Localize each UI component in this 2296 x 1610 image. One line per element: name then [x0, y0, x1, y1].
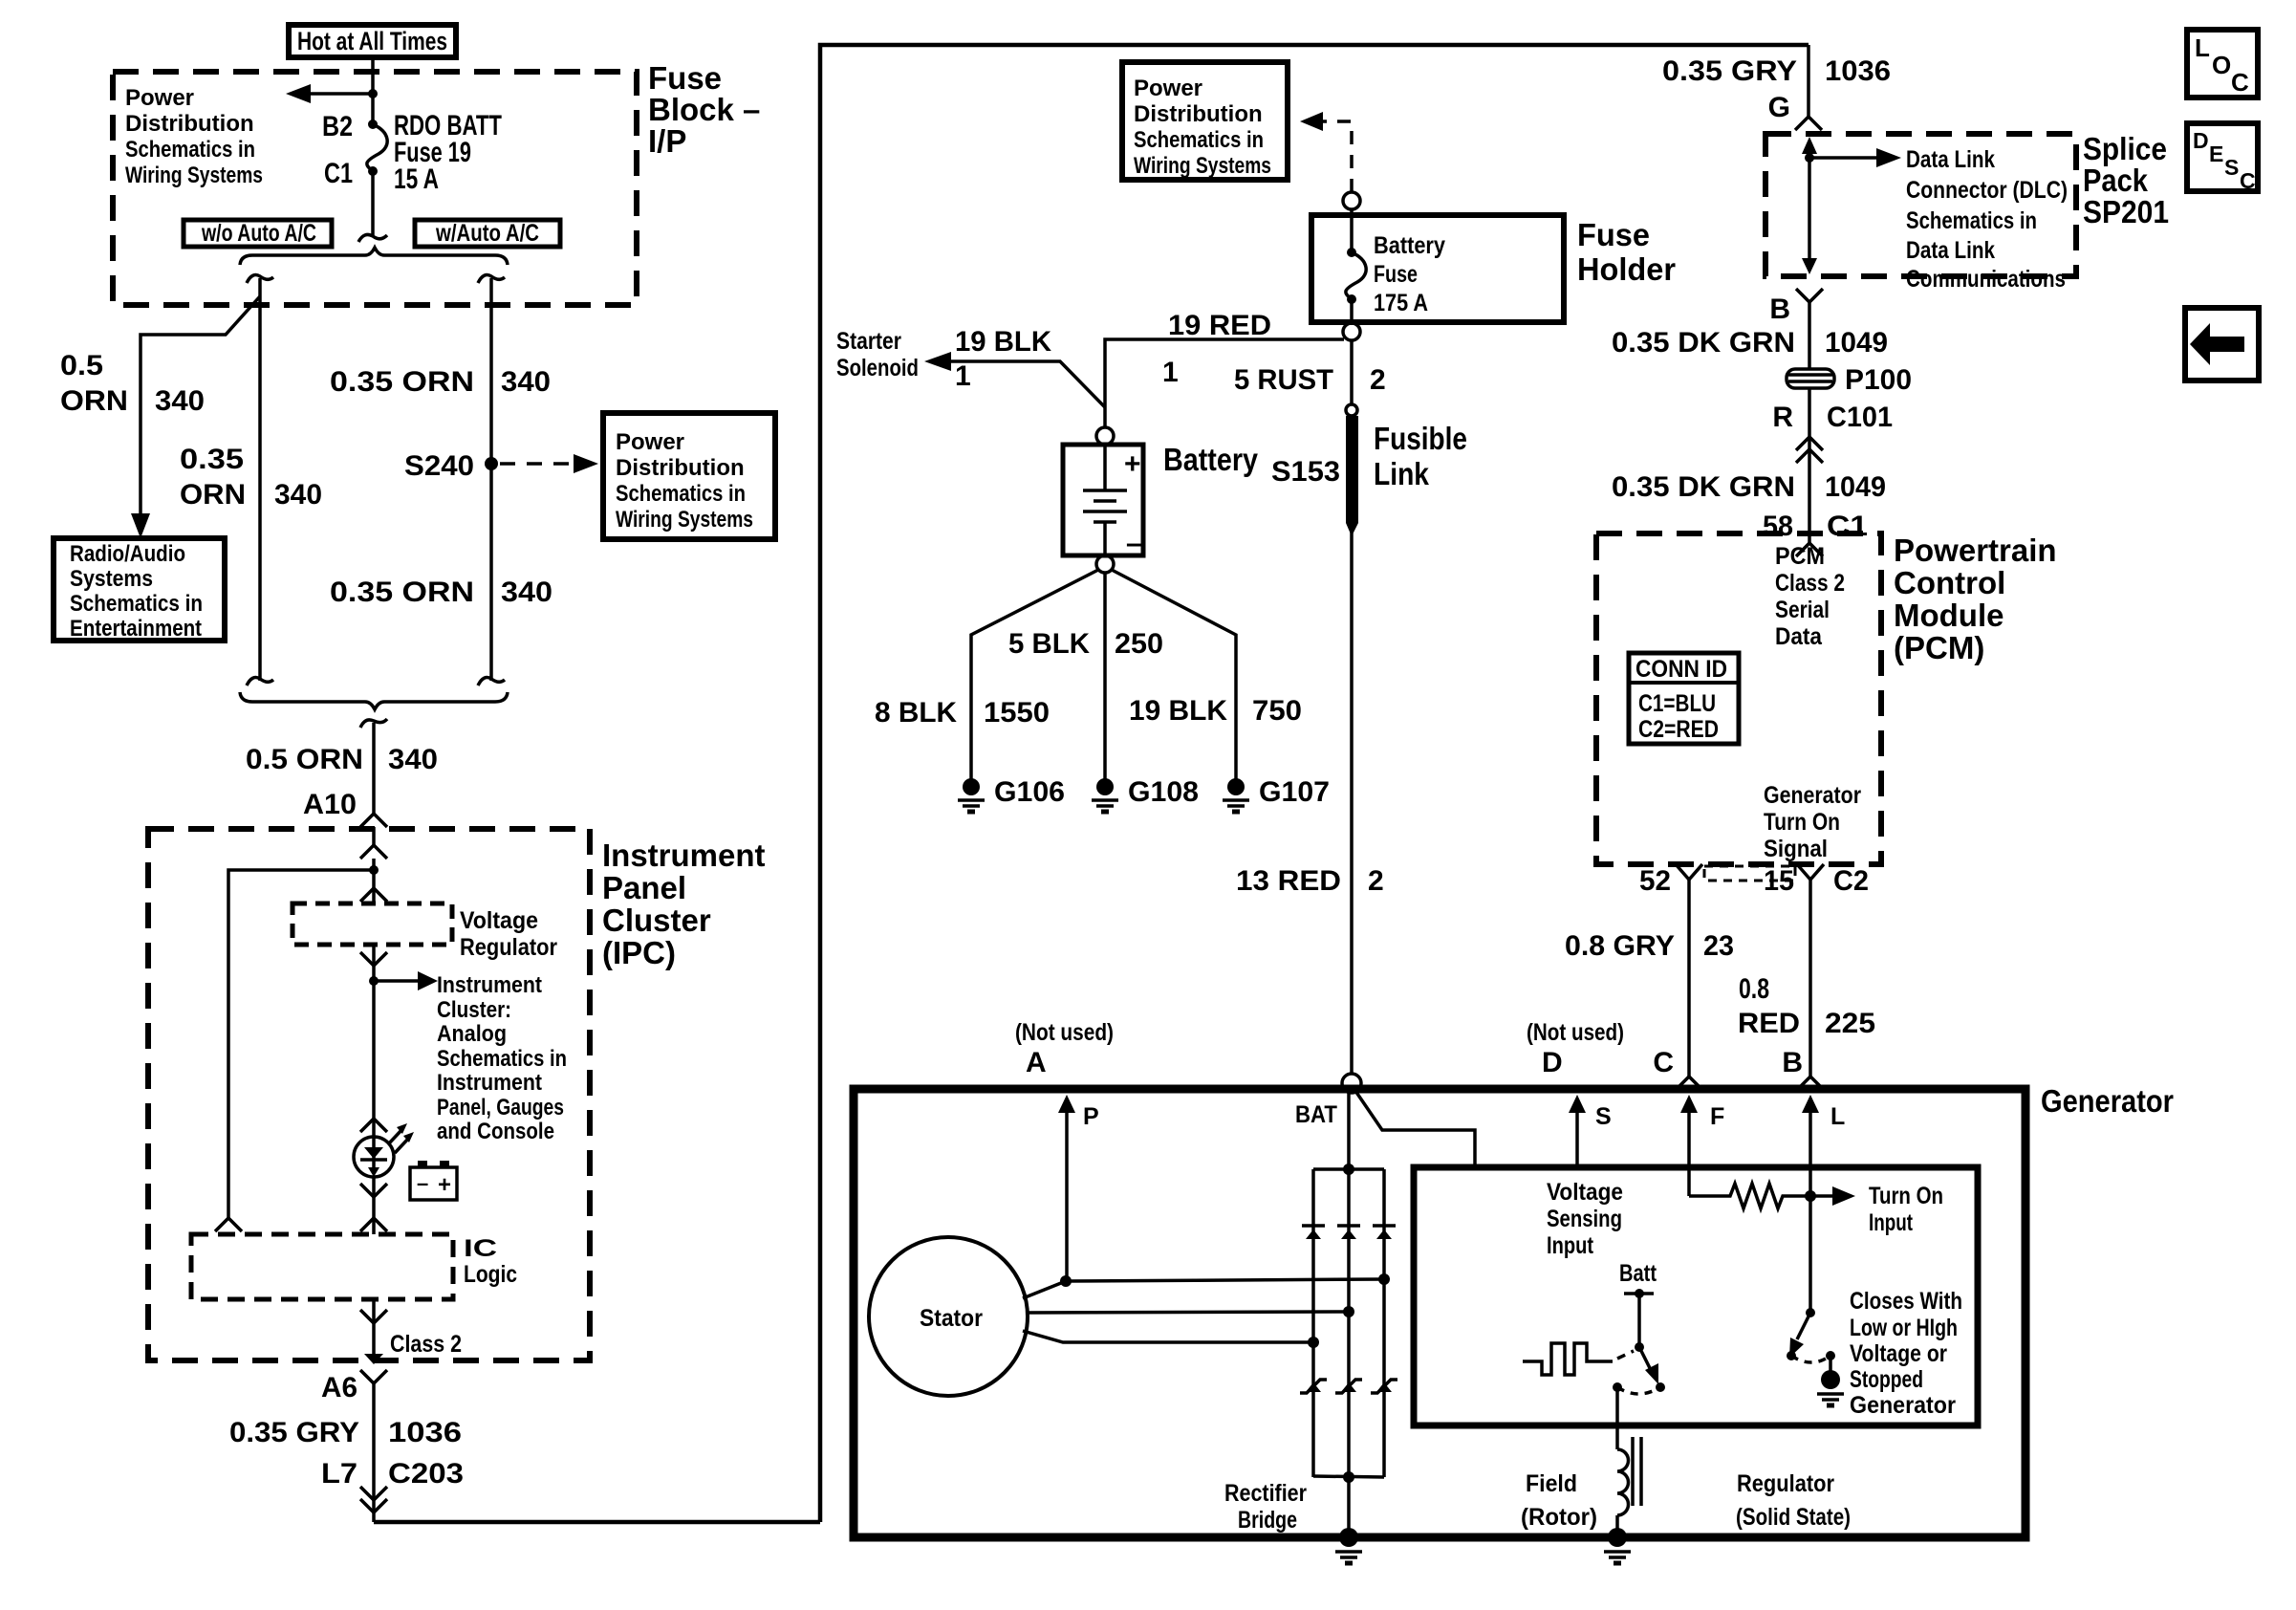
splice wire down arrow	[1802, 158, 1817, 274]
wire SP201 to P100	[1808, 302, 1811, 369]
svg-text:23: 23	[1703, 930, 1734, 962]
svg-text:Fusible: Fusible	[1374, 421, 1467, 456]
svg-text:Module: Module	[1894, 598, 2004, 633]
label Splice Pack SP201	[2083, 131, 2169, 229]
LED indicator lamp	[354, 1123, 414, 1177]
label 0.5 ORN 340	[246, 744, 438, 775]
label 0.35 DK GRN 1049 lower	[1612, 471, 1886, 503]
ground G108	[1096, 778, 1114, 795]
svg-text:Power: Power	[125, 85, 194, 111]
svg-text:B: B	[1782, 1047, 1803, 1078]
svg-text:Distribution: Distribution	[125, 111, 254, 137]
wire fuse holder to fusible link	[1350, 340, 1354, 405]
note Instrument Cluster Analog Schematics	[437, 972, 567, 1144]
wire 13 RED down to generator BAT	[1350, 532, 1354, 1074]
svg-text:F: F	[1710, 1103, 1724, 1130]
Regulator box	[1414, 1167, 1978, 1425]
svg-text:I/P: I/P	[648, 123, 686, 159]
svg-text:Batt: Batt	[1619, 1260, 1657, 1287]
splice wire up arrow	[1802, 137, 1817, 163]
svg-text:C203: C203	[388, 1458, 464, 1490]
svg-text:0.8 GRY: 0.8 GRY	[1565, 930, 1675, 962]
label 0.35 GRY 1036	[229, 1417, 462, 1448]
svg-text:S: S	[2224, 155, 2239, 180]
fuse RDO BATT 15A	[367, 120, 387, 176]
label 0.35 GRY 1036 top right	[1662, 55, 1891, 87]
svg-text:Communications: Communications	[1906, 266, 2066, 293]
label Rectifier Bridge	[1224, 1480, 1307, 1534]
svg-text:A: A	[1026, 1047, 1047, 1078]
svg-text:IC: IC	[464, 1235, 497, 1262]
svg-text:Pack: Pack	[2083, 163, 2149, 198]
svg-text:Schematics in: Schematics in	[1134, 127, 1264, 153]
reference box Power Distribution middle	[1122, 62, 1288, 180]
wire coil to ground	[1615, 1515, 1619, 1534]
arrow to power distribution left	[286, 84, 378, 103]
stator phase wire 2	[1027, 1312, 1349, 1313]
fuse holder terminal circle top	[1343, 192, 1360, 209]
svg-text:Powertrain: Powertrain	[1894, 533, 2057, 568]
svg-text:0.8: 0.8	[1739, 973, 1769, 1005]
node with arrow to instrument cluster note	[369, 976, 379, 986]
label 0.8 RED 225	[1738, 973, 1875, 1039]
wire to left branch inside IPC	[228, 870, 374, 1218]
node junction inside IPC	[369, 865, 379, 875]
svg-text:ORN: ORN	[60, 385, 128, 417]
hook below fuse wire	[358, 234, 387, 242]
wire fuse to split	[371, 171, 375, 235]
svg-text:0.35: 0.35	[180, 444, 244, 475]
connector A10 chevrons	[360, 814, 387, 827]
svg-text:225: 225	[1825, 1008, 1875, 1039]
svg-text:B2: B2	[322, 111, 353, 142]
label Instrument Panel Cluster IPC	[602, 838, 766, 970]
svg-text:Rectifier: Rectifier	[1224, 1480, 1307, 1507]
svg-text:C2=RED: C2=RED	[1638, 716, 1719, 743]
label 0.35 ORN 340 right branch lower	[330, 577, 552, 608]
svg-text:Input: Input	[1547, 1232, 1594, 1259]
svg-text:A6: A6	[321, 1372, 357, 1403]
svg-text:340: 340	[501, 366, 551, 398]
svg-text:0.35 GRY: 0.35 GRY	[229, 1417, 359, 1448]
svg-text:19 BLK: 19 BLK	[955, 326, 1051, 358]
Generator box	[854, 1089, 2025, 1537]
arrow to DLC note	[1809, 148, 1901, 167]
svg-text:Cluster:: Cluster:	[437, 997, 511, 1023]
svg-text:SP201: SP201	[2083, 194, 2169, 229]
left rail wire of charging section	[820, 45, 1809, 1522]
svg-text:Voltage: Voltage	[1547, 1179, 1623, 1206]
svg-text:Data: Data	[1775, 623, 1823, 650]
svg-text:340: 340	[388, 744, 438, 775]
svg-text:0.35 ORN: 0.35 ORN	[330, 366, 474, 398]
wire IC logic to IPC edge Class 2	[372, 1299, 376, 1354]
label 8 BLK 1550	[875, 697, 1050, 729]
svg-text:Sensing: Sensing	[1547, 1206, 1622, 1232]
rectifier bridge rails	[1313, 1164, 1384, 1483]
svg-text:0.5: 0.5	[60, 350, 103, 381]
connector label R C101	[1772, 402, 1893, 433]
label Battery Fuse 175 A	[1374, 232, 1445, 316]
svg-text:B: B	[1769, 294, 1790, 325]
ground wire to G106	[971, 570, 1098, 779]
note PCM Class 2 Serial Data	[1775, 543, 1845, 650]
svg-text:CONN ID: CONN ID	[1635, 656, 1727, 683]
svg-text:BAT: BAT	[1295, 1101, 1337, 1128]
terminal BAT circle	[1342, 1074, 1361, 1093]
svg-text:8 BLK: 8 BLK	[875, 697, 957, 729]
field coil	[1617, 1449, 1629, 1515]
svg-text:Solenoid: Solenoid	[836, 355, 919, 381]
svg-text:Data Link: Data Link	[1906, 237, 1995, 264]
svg-text:O: O	[2212, 51, 2231, 79]
merge brace	[240, 692, 508, 709]
svg-text:5 RUST: 5 RUST	[1234, 364, 1333, 396]
svg-text:Systems: Systems	[70, 566, 153, 592]
svg-text:Class 2: Class 2	[390, 1331, 462, 1358]
wire BAT to regulator	[1355, 1091, 1475, 1167]
svg-text:C2: C2	[1833, 865, 1869, 897]
connector label 58 C1	[1763, 511, 1868, 542]
label Regulator Solid State	[1736, 1470, 1851, 1531]
wire A6 down	[372, 1383, 376, 1522]
svg-text:Low or HIgh: Low or HIgh	[1850, 1315, 1958, 1341]
svg-text:S153: S153	[1271, 456, 1340, 488]
svg-text:1550: 1550	[984, 697, 1050, 729]
IC Logic dashed box	[191, 1234, 453, 1299]
connector G chevron	[1795, 117, 1822, 130]
svg-text:Regulator: Regulator	[460, 934, 557, 961]
svg-text:58: 58	[1763, 511, 1793, 542]
ground G107	[1227, 778, 1245, 795]
svg-text:175 A: 175 A	[1374, 290, 1428, 316]
svg-text:S: S	[1595, 1103, 1612, 1130]
svg-text:Logic: Logic	[464, 1261, 517, 1288]
svg-text:Stopped: Stopped	[1850, 1366, 1923, 1393]
svg-text:0.35 GRY: 0.35 GRY	[1662, 55, 1797, 87]
svg-text:Stator: Stator	[920, 1305, 983, 1332]
svg-text:Generator: Generator	[1764, 782, 1861, 809]
svg-text:D: D	[1542, 1047, 1563, 1078]
dashed arrow S240 to note	[500, 454, 598, 473]
svg-text:Panel, Gauges: Panel, Gauges	[437, 1095, 564, 1120]
rectifier diodes top row	[1302, 1226, 1325, 1239]
connector below IPC	[360, 1370, 387, 1383]
svg-text:Analog: Analog	[437, 1021, 507, 1047]
svg-text:G108: G108	[1128, 776, 1199, 808]
svg-text:Instrument: Instrument	[602, 838, 766, 873]
hook bottom of right branch	[478, 678, 505, 685]
hook top of left branch	[247, 275, 273, 283]
label 13 RED 2	[1236, 865, 1384, 897]
option box w/o Auto A/C	[184, 220, 332, 247]
PWM waveform	[1523, 1343, 1613, 1375]
svg-text:Fuse: Fuse	[648, 60, 722, 96]
hook below merge brace	[360, 719, 387, 728]
svg-text:ORN: ORN	[180, 479, 246, 511]
svg-text:Power: Power	[616, 429, 684, 455]
wire bottom run right	[374, 1520, 820, 1525]
svg-text:Schematics in: Schematics in	[616, 481, 746, 507]
svg-text:C1=BLU: C1=BLU	[1638, 690, 1716, 717]
label Starter Solenoid	[836, 328, 919, 381]
svg-text:C: C	[2240, 168, 2256, 193]
wire LED to IC logic	[372, 1177, 376, 1234]
svg-text:G: G	[1768, 92, 1790, 123]
svg-text:C: C	[2231, 68, 2249, 97]
svg-text:G106: G106	[994, 776, 1065, 808]
svg-text:1049: 1049	[1825, 327, 1888, 359]
svg-text:250: 250	[1115, 628, 1163, 660]
connector label L7 C203	[321, 1458, 464, 1490]
wire to field coil	[1615, 1387, 1619, 1449]
svg-text:L: L	[2195, 33, 2210, 62]
svg-text:S240: S240	[404, 450, 474, 482]
svg-text:PCM: PCM	[1775, 543, 1825, 570]
svg-text:(Not used): (Not used)	[1527, 1019, 1624, 1046]
stator phase wire 3	[1023, 1331, 1313, 1342]
svg-text:Bridge: Bridge	[1238, 1507, 1297, 1534]
battery	[1063, 427, 1143, 573]
L switch to ground	[1787, 1308, 1844, 1405]
label 5 BLK 250	[1008, 628, 1163, 660]
svg-text:1049: 1049	[1825, 471, 1886, 503]
svg-text:Fuse: Fuse	[1577, 217, 1650, 252]
svg-text:0.35 ORN: 0.35 ORN	[330, 577, 474, 608]
svg-text:–: –	[417, 1171, 428, 1195]
svg-text:Connector (DLC): Connector (DLC)	[1906, 177, 2068, 204]
label 0.5 ORN 340	[60, 350, 205, 417]
svg-text:1036: 1036	[388, 1417, 462, 1448]
label 0.8 GRY 23	[1565, 930, 1734, 962]
svg-text:C1: C1	[1827, 511, 1868, 542]
svg-text:1: 1	[955, 360, 971, 392]
note Generator Turn On Signal	[1764, 782, 1861, 862]
svg-text:1: 1	[1162, 357, 1179, 388]
Voltage Regulator dashed box	[292, 903, 452, 945]
reference box Power Distribution Schematics in Wiring Systems left	[603, 413, 775, 539]
split brace	[240, 248, 508, 265]
svg-text:19 BLK: 19 BLK	[1129, 695, 1227, 727]
note Voltage Sensing Input	[1547, 1179, 1623, 1259]
svg-text:Splice: Splice	[2083, 131, 2167, 166]
pin labels 52 15 C2	[1639, 865, 1869, 897]
label Fuse Block - I/P	[648, 60, 760, 159]
svg-text:340: 340	[155, 385, 205, 417]
wire P100 to PCM	[1808, 388, 1811, 543]
svg-text:Distribution: Distribution	[1134, 101, 1263, 127]
connector C203 chevrons	[360, 1487, 387, 1500]
resistor and turn on arrow	[1689, 1184, 1855, 1208]
wire BAT through bridge to ground	[1347, 1093, 1351, 1534]
svg-text:Hot at All Times: Hot at All Times	[297, 27, 447, 55]
note Data Link Connector DLC Schematics	[1906, 146, 2068, 293]
option box w/Auto A/C	[415, 220, 560, 247]
svg-text:Voltage or: Voltage or	[1850, 1340, 1947, 1367]
label RDO BATT Fuse 19 15 A	[394, 110, 502, 195]
svg-text:Holder: Holder	[1577, 251, 1676, 287]
svg-text:Distribution: Distribution	[616, 455, 745, 481]
svg-text:C: C	[1653, 1047, 1674, 1078]
label 0.35 ORN 340 left branch	[180, 444, 322, 511]
svg-text:w/Auto A/C: w/Auto A/C	[435, 220, 539, 247]
svg-text:Fuse: Fuse	[1374, 261, 1418, 288]
svg-text:(Not used): (Not used)	[1015, 1019, 1114, 1046]
svg-text:2: 2	[1368, 865, 1384, 897]
svg-text:Input: Input	[1869, 1209, 1914, 1236]
splice S240	[485, 457, 498, 470]
label IC Logic	[464, 1235, 517, 1288]
svg-text:5 BLK: 5 BLK	[1008, 628, 1090, 660]
label Not used D	[1527, 1019, 1624, 1078]
CONN ID table	[1629, 653, 1739, 744]
Splice Pack SP201 dashed box	[1765, 134, 2076, 276]
label Powertrain Control Module PCM	[1894, 533, 2057, 665]
svg-text:0.35 DK GRN: 0.35 DK GRN	[1612, 327, 1795, 359]
label Field Rotor	[1521, 1470, 1597, 1531]
svg-text:750: 750	[1252, 695, 1302, 727]
wire PCM 52 to generator F	[1687, 880, 1691, 1077]
svg-text:(PCM): (PCM)	[1894, 630, 1984, 665]
label 19 BLK 1	[955, 326, 1051, 392]
connector C101 double chevrons	[1796, 437, 1823, 450]
wire down to voltage regulator	[372, 870, 376, 903]
svg-text:Cluster: Cluster	[602, 903, 711, 938]
reference box Radio/Audio Systems Schematics in Entertainment	[54, 538, 225, 642]
svg-text:L7: L7	[321, 1458, 357, 1490]
svg-text:Panel: Panel	[602, 870, 686, 905]
wire right branch w/Auto A/C	[489, 278, 493, 681]
ground wire to G107	[1112, 570, 1236, 779]
svg-text:and Console: and Console	[437, 1119, 554, 1144]
svg-text:Regulator: Regulator	[1737, 1470, 1834, 1497]
field switch arm	[1613, 1347, 1665, 1394]
wire down to indicator LED	[372, 981, 376, 1137]
svg-text:(Solid State): (Solid State)	[1736, 1504, 1851, 1531]
wire PCM 15 to generator L	[1809, 880, 1812, 1077]
svg-text:Schematics in: Schematics in	[1906, 207, 2037, 234]
battery fuse 175 A	[1346, 209, 1366, 323]
Fuse Holder box	[1311, 215, 1564, 322]
label 19 BLK 750	[1129, 695, 1302, 727]
hook bottom of left branch	[247, 678, 273, 685]
svg-text:P100: P100	[1845, 364, 1912, 396]
svg-text:Battery: Battery	[1163, 442, 1259, 477]
svg-text:A10: A10	[303, 789, 357, 820]
svg-text:(IPC): (IPC)	[602, 935, 676, 970]
svg-text:15: 15	[1764, 865, 1794, 897]
label Fusible Link	[1374, 421, 1467, 491]
hook top of right branch	[478, 275, 505, 283]
svg-text:Field: Field	[1526, 1470, 1577, 1497]
svg-text:P: P	[1083, 1103, 1099, 1130]
connector pin 52 chevron	[1676, 864, 1702, 880]
svg-text:C1: C1	[324, 158, 353, 189]
terminal arrow P	[1058, 1095, 1099, 1281]
ground at rectifier	[1339, 1528, 1358, 1547]
svg-text:Generator: Generator	[2041, 1083, 2174, 1119]
svg-text:340: 340	[274, 479, 322, 511]
svg-text:Wiring Systems: Wiring Systems	[125, 163, 263, 188]
svg-text:Voltage: Voltage	[460, 907, 538, 934]
svg-text:13 RED: 13 RED	[1236, 865, 1341, 897]
svg-text:Wiring Systems: Wiring Systems	[616, 507, 753, 533]
PCM connector row dashed	[1704, 866, 1795, 881]
DESC legend box	[2187, 123, 2258, 193]
svg-text:Battery: Battery	[1374, 232, 1445, 259]
label Voltage Regulator	[460, 907, 557, 961]
svg-text:Generator: Generator	[1850, 1392, 1956, 1419]
svg-text:Schematics in: Schematics in	[125, 137, 255, 163]
ground at field	[1608, 1528, 1627, 1547]
svg-text:Starter: Starter	[836, 328, 901, 355]
wire merge to IPC	[372, 723, 376, 814]
back arrow legend box	[2185, 308, 2259, 381]
svg-text:(Rotor): (Rotor)	[1521, 1504, 1597, 1531]
svg-text:w/o Auto A/C: w/o Auto A/C	[201, 220, 316, 247]
svg-text:D: D	[2193, 128, 2209, 153]
svg-text:Schematics in: Schematics in	[70, 591, 203, 617]
svg-text:Instrument: Instrument	[437, 972, 542, 998]
svg-text:Block –: Block –	[648, 92, 760, 127]
note Turn On Input	[1869, 1183, 1943, 1236]
wire below voltage regulator	[372, 945, 376, 981]
connector pin 15 chevron	[1797, 864, 1824, 880]
svg-text:19 RED: 19 RED	[1168, 310, 1271, 341]
stator	[869, 1237, 1028, 1396]
connector B chevron	[1796, 289, 1823, 302]
wire from Hot box to fuse B2	[371, 57, 375, 124]
svg-text:340: 340	[501, 577, 552, 608]
svg-text:1036: 1036	[1825, 55, 1891, 87]
ground G106	[963, 778, 980, 795]
svg-text:Instrument: Instrument	[437, 1070, 542, 1096]
label 0.35 DK GRN 1049	[1612, 327, 1888, 359]
svg-text:E: E	[2209, 141, 2223, 166]
svg-text:Data Link: Data Link	[1906, 146, 1995, 173]
note Power Distribution Schematics in Wiring Systems	[125, 85, 263, 188]
core bars	[1633, 1437, 1641, 1506]
svg-text:Schematics in: Schematics in	[437, 1046, 567, 1072]
svg-text:0.35 DK GRN: 0.35 DK GRN	[1612, 471, 1795, 503]
svg-text:Radio/Audio: Radio/Audio	[70, 541, 185, 567]
svg-text:Class 2: Class 2	[1775, 570, 1845, 597]
label 5 RUST 2	[1234, 364, 1386, 396]
svg-text:–: –	[1126, 528, 1142, 559]
svg-text:+: +	[438, 1172, 451, 1198]
fusible link S153	[1346, 404, 1358, 536]
pass-through connector P100	[1787, 369, 1834, 388]
note Closes With Low or HIgh Voltage or Stopped Generator	[1850, 1288, 1962, 1419]
wire 19 BLK to starter solenoid	[924, 352, 1105, 407]
svg-text:Entertainment: Entertainment	[70, 616, 202, 642]
battery charge indicator icon	[410, 1161, 457, 1200]
wire top rail to SP201	[1807, 45, 1810, 117]
reference box "Hot at All Times"	[289, 25, 456, 57]
Powertrain Control Module dashed box	[1596, 533, 1881, 864]
label Not used A	[1015, 1019, 1114, 1078]
svg-text:15 A: 15 A	[394, 163, 439, 195]
Instrument Panel Cluster dashed box	[148, 829, 590, 1360]
svg-text:+: +	[1124, 448, 1141, 480]
stator phase wire 1	[1023, 1279, 1384, 1298]
arrowhead into Radio box	[131, 513, 150, 538]
svg-text:52: 52	[1639, 865, 1671, 897]
Fuse Block - I/P dashed box	[113, 72, 637, 305]
svg-text:C101: C101	[1827, 402, 1893, 433]
svg-text:RED: RED	[1738, 1008, 1800, 1039]
svg-text:2: 2	[1370, 364, 1386, 396]
